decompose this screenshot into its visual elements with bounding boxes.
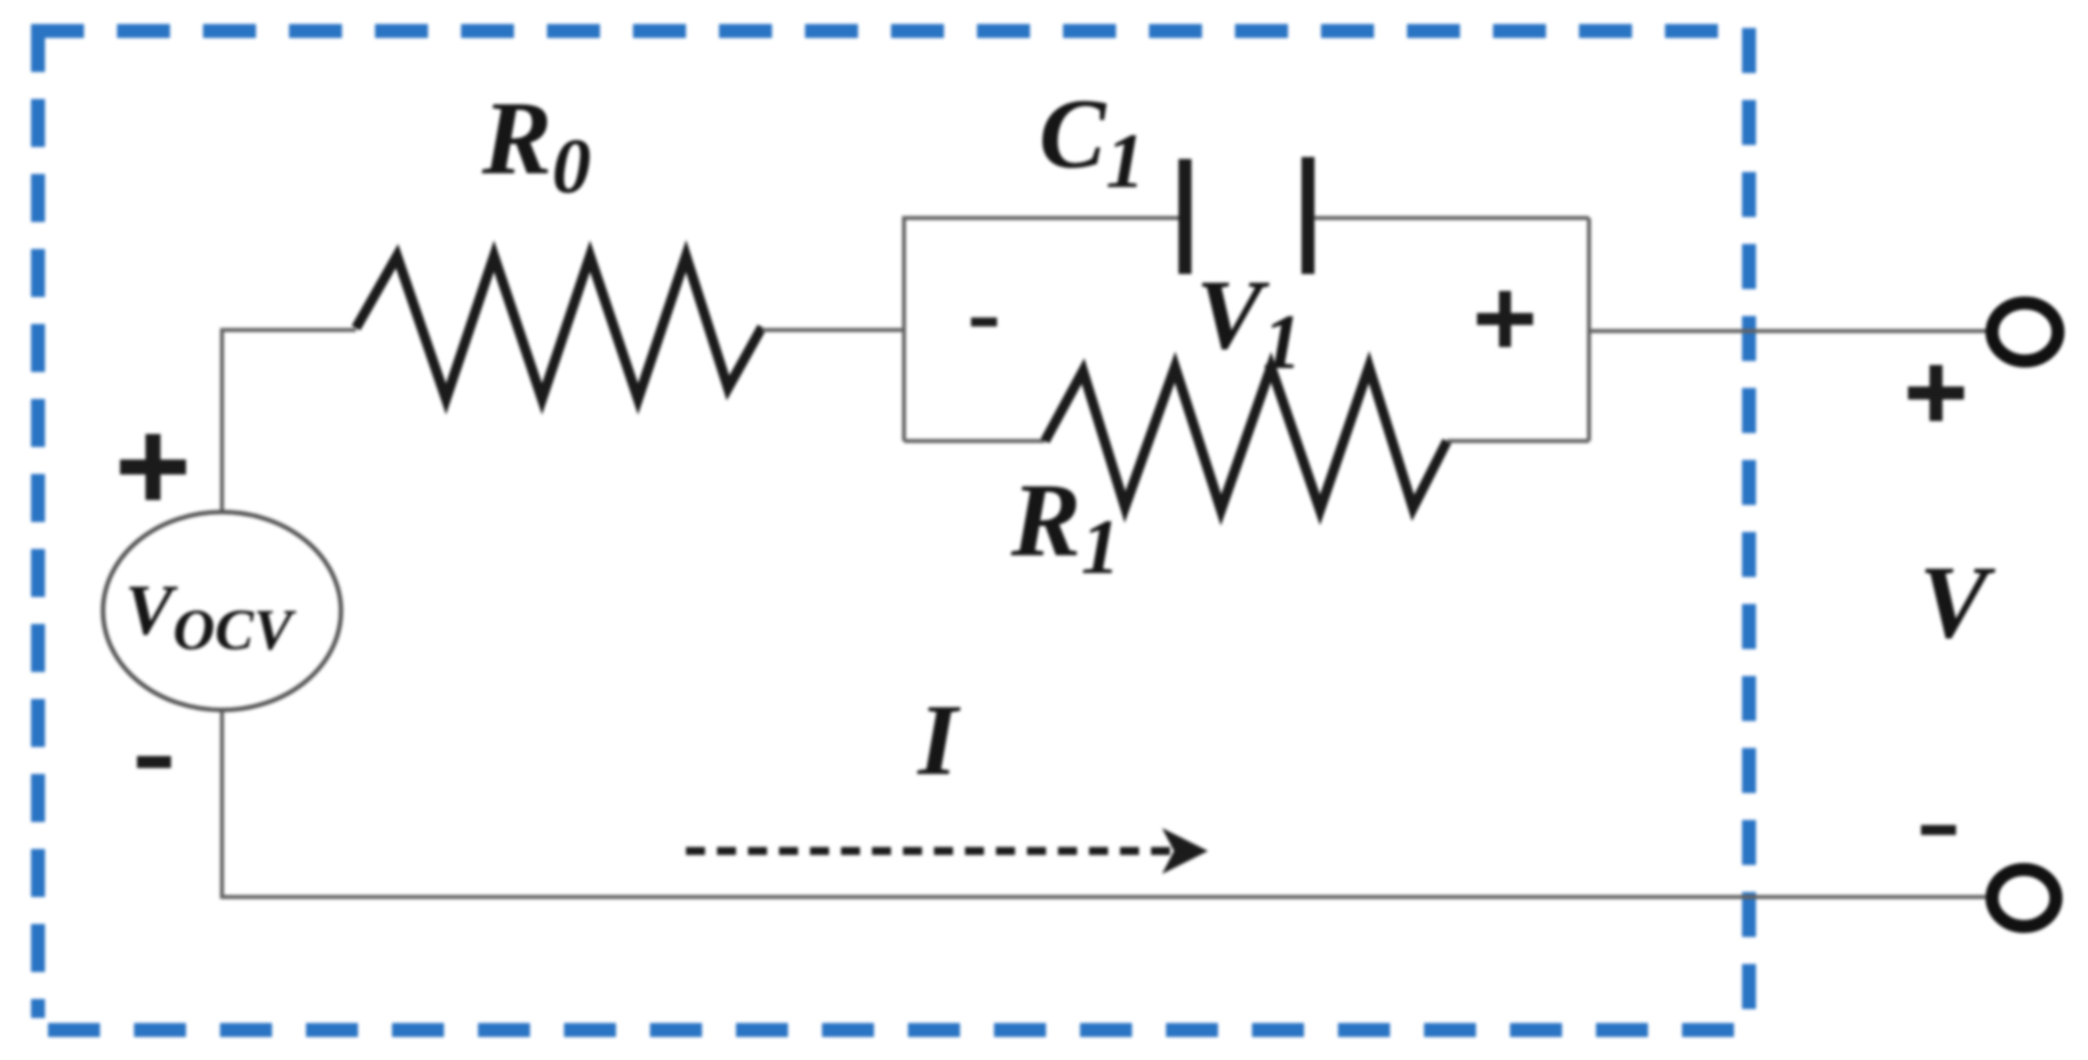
label minus at bottom terminal	[1921, 825, 1956, 835]
battery model boundary dashed box : bottom edge	[48, 1023, 1734, 1037]
polarity minus of V1	[971, 318, 997, 327]
battery model boundary dashed box : top edge	[31, 24, 1718, 38]
current arrow I (dashed shaft)	[686, 847, 1172, 855]
polarity plus of V1	[1477, 291, 1533, 347]
resistor R0 zigzag	[356, 256, 762, 399]
capacitor C1 (two plates)	[1179, 159, 1192, 274]
wire: R1 to box right corner	[1447, 439, 1589, 443]
label plus at source	[120, 434, 186, 500]
node: RC block left vertical wire	[902, 218, 906, 441]
wire: bottom-left branch to R1	[904, 439, 1045, 443]
terminal circle top	[1992, 303, 2058, 361]
wire: bottom rail	[222, 710, 1986, 897]
wire: output top rail	[1589, 329, 1986, 333]
wire: R0 to RC block	[762, 328, 904, 332]
terminal circle bottom	[1992, 870, 2056, 927]
svg-text:I: I	[917, 684, 961, 797]
node: RC block right vertical wire	[1587, 218, 1591, 441]
svg-text:V: V	[1919, 545, 1996, 660]
battery model boundary dashed box : right edge	[1742, 28, 1756, 1021]
wire: top branch to C1 left plate	[902, 216, 1179, 220]
current arrow I (head)	[1162, 828, 1208, 874]
label plus at top terminal	[1908, 365, 1964, 421]
wire: source top vertical	[222, 330, 356, 512]
battery model boundary dashed box : left edge	[31, 24, 45, 1018]
voltage source VOCV ellipse	[103, 512, 341, 710]
resistor R1 zigzag	[1045, 367, 1447, 510]
label minus at source	[137, 756, 171, 768]
wire: C1 right plate to box corner	[1314, 216, 1589, 220]
